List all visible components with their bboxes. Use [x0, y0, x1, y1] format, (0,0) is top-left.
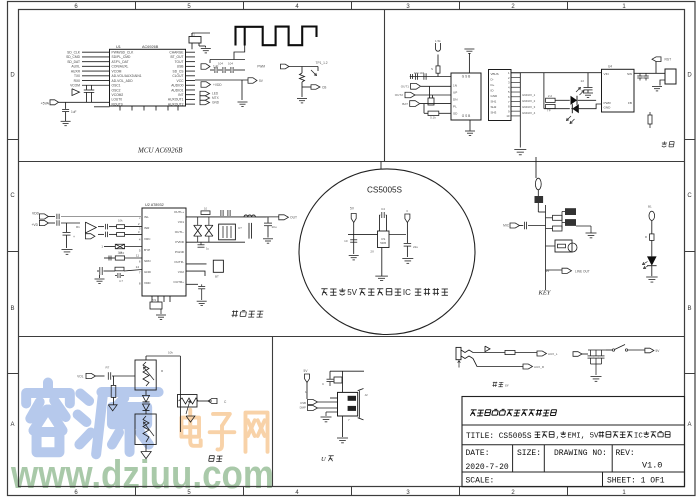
- svg-text:AUX_L: AUX_L: [548, 352, 558, 356]
- svg-text:10k: 10k: [118, 219, 123, 223]
- svg-text:VDD: VDD: [32, 212, 40, 216]
- svg-text:SH1: SH1: [491, 100, 497, 104]
- svg-text:AD-VOL_ADD: AD-VOL_ADD: [112, 79, 134, 83]
- svg-text:OUTR+: OUTR+: [173, 280, 184, 284]
- svg-text:DRAWING NO:: DRAWING NO:: [554, 449, 607, 458]
- svg-text:CON/AUXL: CON/AUXL: [112, 65, 129, 69]
- svg-text:B: B: [687, 306, 691, 312]
- svg-text:10k: 10k: [168, 351, 173, 355]
- svg-text:B1: B1: [648, 205, 652, 209]
- svg-text:INT: INT: [178, 93, 183, 97]
- svg-text:GND2X_2: GND2X_2: [522, 99, 536, 103]
- svg-text:10: 10: [204, 207, 208, 211]
- svg-text:OUT2: OUT2: [395, 93, 404, 97]
- svg-text:2020-7-20: 2020-7-20: [466, 463, 509, 472]
- svg-text:SIZE:: SIZE:: [517, 449, 541, 458]
- svg-text:,: ,: [556, 433, 560, 441]
- svg-text:D-: D-: [491, 78, 494, 82]
- svg-text:5005: 5005: [380, 241, 386, 245]
- svg-text:www.dziuu.com: www.dziuu.com: [10, 453, 274, 497]
- svg-text:LINE OUT: LINE OUT: [575, 270, 590, 274]
- svg-text:SHEET: 1 OF1: SHEET: 1 OF1: [607, 477, 665, 486]
- svg-text:B: B: [10, 306, 14, 312]
- svg-text:DMP: DMP: [300, 406, 306, 410]
- svg-text:10: 10: [344, 239, 348, 243]
- svg-text:10: 10: [506, 114, 510, 118]
- svg-text:U2 AT8932: U2 AT8932: [145, 203, 164, 207]
- svg-text:V1.0: V1.0: [642, 461, 662, 471]
- svg-text:U?: U?: [238, 226, 242, 230]
- svg-text:2.2: 2.2: [548, 94, 553, 98]
- svg-text:DATE:: DATE:: [466, 449, 490, 458]
- svg-text:BT: BT: [215, 275, 219, 279]
- svg-text:OUTL-: OUTL-: [175, 230, 184, 234]
- svg-text:C4: C4: [381, 207, 385, 211]
- svg-text:VO2: VO2: [178, 270, 184, 274]
- svg-text:1uF: 1uF: [71, 110, 77, 114]
- svg-text:R7: R7: [106, 366, 110, 370]
- svg-text:CS5005S: CS5005S: [367, 186, 403, 195]
- svg-text:PGND: PGND: [175, 250, 185, 254]
- svg-text:C10: C10: [119, 251, 125, 255]
- svg-text:D+: D+: [491, 83, 495, 87]
- svg-text:OUT: OUT: [290, 216, 297, 220]
- svg-text:TITLE: CS5005S: TITLE: CS5005S: [466, 433, 532, 441]
- svg-text:CS: CS: [381, 237, 385, 241]
- svg-text:8 9: 8 9: [152, 298, 156, 302]
- svg-text:OSC1: OSC1: [112, 84, 121, 88]
- svg-text:GND: GND: [604, 106, 612, 110]
- svg-text:IC: IC: [634, 433, 643, 441]
- svg-text:SD_DAT: SD_DAT: [67, 60, 80, 64]
- svg-text:USB: USB: [300, 401, 306, 405]
- svg-text:VBUS: VBUS: [491, 72, 499, 76]
- svg-text:EMI, 5V: EMI, 5V: [567, 433, 599, 441]
- svg-text:VCOM: VCOM: [112, 69, 122, 73]
- svg-text:1u: 1u: [206, 247, 210, 251]
- svg-text:PWR: PWR: [604, 101, 612, 105]
- svg-text:LED: LED: [212, 92, 219, 96]
- svg-text:1.5k: 1.5k: [435, 39, 441, 43]
- svg-text:SD/PL_CMD: SD/PL_CMD: [112, 55, 131, 59]
- svg-text:GND2X_4: GND2X_4: [522, 111, 536, 115]
- svg-text:OUTL+: OUTL+: [174, 210, 184, 214]
- svg-text:VCOM: VCOM: [70, 84, 80, 88]
- svg-text:OSC2: OSC2: [112, 88, 121, 92]
- svg-text:CLOUT: CLOUT: [172, 74, 183, 78]
- svg-text:GND2X_3: GND2X_3: [522, 105, 536, 109]
- svg-text:+VD: +VD: [31, 223, 38, 227]
- svg-text:D: D: [687, 73, 692, 79]
- svg-text:4.7: 4.7: [119, 279, 123, 283]
- svg-text:PL: PL: [453, 105, 457, 109]
- svg-text:AUDIO0: AUDIO0: [171, 84, 183, 88]
- svg-text:OUTR-: OUTR-: [174, 260, 184, 264]
- svg-text:+VDD: +VDD: [213, 83, 222, 87]
- svg-text:BT_OUT: BT_OUT: [170, 55, 183, 59]
- svg-text:GND: GND: [212, 101, 220, 105]
- svg-text:AUDIO1: AUDIO1: [171, 88, 183, 92]
- svg-text:RX0: RX0: [74, 79, 81, 83]
- svg-text:PWM: PWM: [257, 65, 265, 69]
- svg-text:BAT: BAT: [402, 102, 408, 106]
- svg-text:UP: UP: [453, 91, 457, 95]
- svg-text:A: A: [10, 422, 14, 428]
- svg-text:TX0: TX0: [74, 74, 80, 78]
- svg-text:U1: U1: [116, 45, 121, 49]
- svg-text:104: 104: [228, 62, 233, 66]
- svg-text:14: 14: [136, 265, 140, 269]
- svg-text:TOUT: TOUT: [175, 60, 184, 64]
- svg-text:PVDD: PVDD: [175, 240, 184, 244]
- svg-text:SD_CMD: SD_CMD: [66, 55, 81, 59]
- svg-text:AUX_R: AUX_R: [534, 365, 545, 369]
- svg-text:J2: J2: [365, 393, 369, 397]
- svg-text:VCOM2: VCOM2: [112, 93, 124, 97]
- svg-text:AUXOUT1: AUXOUT1: [168, 98, 184, 102]
- svg-text:C: C: [10, 193, 15, 199]
- svg-text:MCU AC6926B: MCU AC6926B: [137, 147, 183, 155]
- svg-text:AUXR: AUXR: [71, 69, 81, 73]
- svg-text:S: S: [431, 67, 433, 71]
- svg-text:R1: R1: [76, 225, 80, 229]
- svg-text:IN: IN: [504, 384, 509, 388]
- svg-text:USB: USB: [177, 65, 185, 69]
- svg-text:1N: 1N: [453, 84, 457, 88]
- svg-text:C: C: [687, 193, 692, 199]
- svg-text:MTX: MTX: [212, 96, 220, 100]
- svg-text:ROUT0: ROUT0: [112, 102, 123, 106]
- svg-text:CHARGE: CHARGE: [169, 51, 184, 55]
- svg-text:SD_CLK: SD_CLK: [67, 51, 81, 55]
- svg-text:CB: CB: [322, 86, 326, 90]
- svg-text:LOUT0: LOUT0: [112, 98, 123, 102]
- svg-text:REV:: REV:: [616, 449, 635, 458]
- svg-text:GND: GND: [491, 94, 499, 98]
- svg-text:10u: 10u: [272, 225, 277, 229]
- svg-text:GND: GND: [144, 270, 152, 274]
- svg-text:104: 104: [218, 62, 223, 66]
- svg-text:SDN: SDN: [144, 259, 151, 263]
- svg-text:VCC: VCC: [177, 79, 185, 83]
- svg-text:DN: DN: [453, 98, 457, 102]
- svg-text:IC: IC: [403, 288, 411, 297]
- svg-text:AT/PL_DAT: AT/PL_DAT: [112, 60, 129, 64]
- svg-text:2X: 2X: [370, 250, 374, 254]
- svg-text:AUXL: AUXL: [71, 65, 80, 69]
- svg-text:5V: 5V: [347, 288, 357, 297]
- svg-text:AC6926B: AC6926B: [142, 45, 159, 49]
- svg-text:AUXOUT2: AUXOUT2: [168, 102, 184, 106]
- svg-text:SH2: SH2: [491, 105, 497, 109]
- svg-text:FB: FB: [628, 101, 632, 105]
- svg-text:VIN: VIN: [604, 72, 609, 76]
- svg-text:GND2X_1: GND2X_1: [522, 93, 536, 97]
- svg-text:PWM/SD_CLK: PWM/SD_CLK: [112, 51, 135, 55]
- svg-text:SW: SW: [627, 72, 632, 76]
- svg-text:D: D: [10, 73, 15, 79]
- svg-text:VO1: VO1: [178, 220, 184, 224]
- svg-text:SH3: SH3: [491, 111, 497, 115]
- svg-text:SD_CS: SD_CS: [173, 69, 185, 73]
- svg-text:SD: SD: [453, 112, 458, 116]
- svg-text:AD-VOL/AUX2/AIN1: AD-VOL/AUX2/AIN1: [112, 74, 142, 78]
- svg-text:+5VA: +5VA: [41, 102, 50, 106]
- svg-text:104 104: 104 104: [414, 71, 425, 75]
- svg-text:A: A: [687, 422, 691, 428]
- svg-text:G S B: G S B: [462, 114, 471, 118]
- svg-text:G S B: G S B: [462, 75, 471, 79]
- svg-text:5.1k: 5.1k: [430, 116, 436, 120]
- svg-text:OUT1: OUT1: [401, 85, 410, 89]
- svg-text:+: +: [73, 235, 75, 239]
- svg-text:22: 22: [581, 79, 585, 83]
- svg-text:INR: INR: [144, 226, 150, 230]
- svg-text:RST: RST: [665, 58, 672, 62]
- svg-text:VOL: VOL: [77, 375, 84, 379]
- svg-text:TP1_1.2: TP1_1.2: [316, 61, 328, 65]
- svg-text:SCALE:: SCALE:: [466, 477, 495, 486]
- svg-text:INL: INL: [144, 215, 149, 219]
- svg-text:22u: 22u: [413, 245, 418, 249]
- svg-text:U4: U4: [608, 65, 612, 69]
- svg-text:VRC: VRC: [144, 237, 151, 241]
- svg-text:BYP: BYP: [144, 248, 150, 252]
- svg-text:11: 11: [136, 254, 139, 258]
- svg-text:KEY: KEY: [538, 290, 552, 297]
- svg-text:MIC: MIC: [503, 224, 510, 228]
- svg-text:VDD: VDD: [144, 281, 151, 285]
